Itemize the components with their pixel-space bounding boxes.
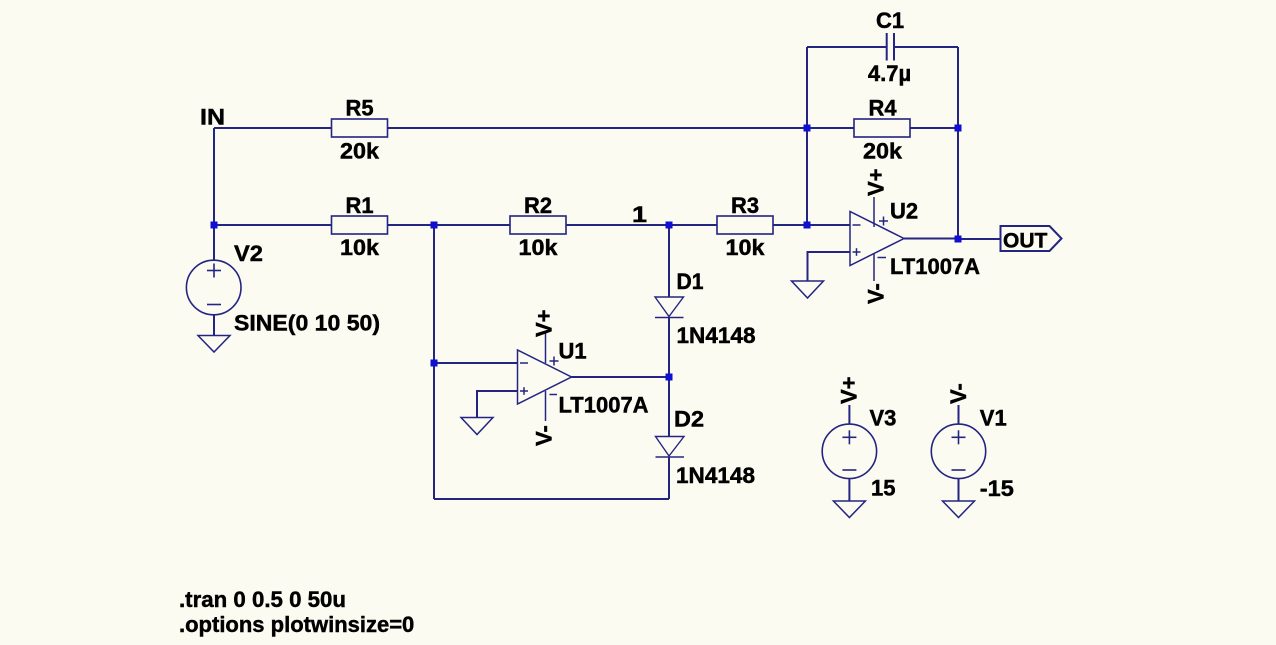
wire C1 top right	[895, 46, 959, 48]
svg-text:1: 1	[632, 202, 647, 227]
svg-text:C1: C1	[876, 8, 904, 33]
junction U2 output	[955, 236, 962, 243]
wire right column to output junction	[957, 128, 959, 239]
OUT port shape	[1001, 226, 1062, 251]
junction R4/C1 left	[804, 125, 811, 132]
voltage source V2	[186, 260, 241, 315]
svg-text:LT1007A: LT1007A	[890, 254, 980, 279]
ground below V3	[833, 501, 865, 518]
wire U2 output	[904, 238, 958, 240]
wire R3 to U2 inverting input	[773, 224, 850, 226]
resistor R4 body	[854, 119, 910, 137]
resistor R5 body	[332, 119, 388, 137]
svg-text:IN: IN	[200, 105, 225, 130]
wire R5 to junction	[387, 127, 807, 129]
wire top row IN to R5	[214, 127, 332, 129]
wire junction A to R2	[434, 224, 510, 226]
wire V3 bottom to ground	[848, 479, 850, 502]
svg-text:V3: V3	[870, 406, 897, 431]
svg-text:R3: R3	[731, 193, 759, 218]
wire R4 to right column	[910, 127, 958, 129]
junction U2 inverting input	[804, 222, 811, 229]
wire V2 bottom to ground	[213, 315, 215, 336]
svg-text:OUT: OUT	[1003, 230, 1048, 253]
svg-text:V+: V+	[864, 168, 889, 196]
wire R1 to junction A	[387, 224, 434, 226]
svg-text:D2: D2	[674, 407, 704, 432]
wire U1 noninverting input to ground	[477, 391, 518, 418]
wire C1 right vertical	[957, 47, 959, 128]
ground below V2	[198, 336, 230, 353]
wire junction to R4	[807, 127, 854, 129]
ground below U1 noninverting input	[461, 418, 493, 435]
svg-text:U2: U2	[890, 199, 918, 224]
resistor R1 body	[332, 216, 388, 234]
junction R4/C1 right	[955, 125, 962, 132]
wire D2 to bottom row	[668, 457, 670, 499]
svg-text:U1: U1	[559, 339, 587, 364]
op-amp U1	[518, 331, 572, 421]
svg-text:V-: V-	[864, 283, 889, 304]
wire V2 row to R1	[214, 224, 332, 226]
svg-text:R5: R5	[346, 96, 374, 121]
wire V1 top	[958, 405, 960, 424]
svg-text:V1: V1	[980, 406, 1007, 431]
junction IN/V2	[211, 222, 218, 229]
wire C1 top left	[807, 46, 886, 48]
wire D1 to U1 output junction	[668, 318, 670, 378]
wire node 1 to R3	[669, 224, 717, 226]
svg-text:R1: R1	[346, 193, 374, 218]
svg-text:1N4148: 1N4148	[677, 323, 756, 348]
svg-text:10k: 10k	[519, 235, 559, 260]
svg-text:LT1007A: LT1007A	[559, 393, 649, 418]
junction U1 output	[666, 374, 673, 381]
ground below U2 noninverting input	[792, 281, 824, 298]
svg-text:V-: V-	[946, 383, 971, 404]
resistor R2 body	[510, 216, 566, 234]
wire U1 output	[572, 376, 670, 378]
wire C1 left vertical	[806, 47, 808, 128]
svg-text:15: 15	[871, 476, 895, 501]
svg-text:V+: V+	[837, 376, 862, 404]
diode D1	[655, 297, 684, 318]
wire to U1 inverting input	[434, 362, 518, 364]
wire V3 top	[848, 405, 850, 424]
diode D2	[656, 437, 685, 458]
op-amp U2	[850, 197, 904, 281]
wire V1 bottom to ground	[958, 479, 960, 502]
wire IN vertical to V2	[213, 128, 215, 260]
wire bottom feedback row	[434, 498, 669, 500]
svg-text:R2: R2	[524, 193, 552, 218]
svg-text:20k: 20k	[340, 139, 380, 164]
resistor R3 body	[717, 216, 773, 234]
svg-text:4.7µ: 4.7µ	[868, 61, 911, 86]
voltage source V1	[931, 424, 985, 478]
svg-text:D1: D1	[677, 269, 704, 294]
junction A R1/R2	[431, 222, 438, 229]
svg-text:R4: R4	[869, 96, 898, 121]
wire R2 to node 1	[566, 224, 669, 226]
junction U1 inverting input	[431, 360, 438, 367]
wire U1 output junction down to D2	[668, 377, 670, 437]
svg-text:1N4148: 1N4148	[676, 463, 755, 488]
svg-text:20k: 20k	[863, 139, 903, 164]
svg-text:10k: 10k	[340, 235, 380, 260]
junction node 1	[666, 222, 673, 229]
svg-text:.tran 0 0.5 0 50u: .tran 0 0.5 0 50u	[179, 587, 346, 612]
wire feedback vertical to U2 input	[806, 128, 808, 225]
svg-text:V2: V2	[234, 241, 263, 266]
wire output junction to OUT port	[958, 238, 1001, 240]
ground below V1	[943, 501, 975, 518]
wire left vertical junction A down to bottom	[433, 225, 435, 499]
svg-text:.options plotwinsize=0: .options plotwinsize=0	[179, 612, 414, 637]
capacitor C1	[887, 33, 894, 61]
wire node 1 down to D1	[668, 225, 670, 297]
voltage source V3	[822, 424, 876, 478]
svg-text:-15: -15	[980, 476, 1014, 501]
svg-text:10k: 10k	[726, 235, 766, 260]
svg-text:V-: V-	[532, 425, 557, 446]
svg-text:V+: V+	[532, 309, 557, 337]
svg-text:SINE(0 10 50): SINE(0 10 50)	[234, 311, 380, 336]
wire U2 noninverting input to ground	[808, 252, 851, 281]
